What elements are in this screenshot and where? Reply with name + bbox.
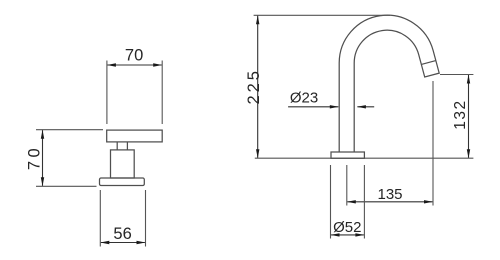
handle stem left line (116, 142, 118, 150)
arrow 225 top (256, 15, 259, 24)
mounting surface line (shared extension for 225 and 132) (255, 157, 474, 159)
dimension 70 top: extension line left (106, 61, 108, 125)
arrow Ø23 right (points left at pipe) (357, 105, 366, 108)
dimension Ø52: right extension line (363, 165, 365, 239)
dimension 225: dimension line (257, 16, 259, 158)
dimension Ø52: left extension line (330, 165, 332, 239)
dimension 225: top extension line (254, 14, 390, 16)
svg-text:70: 70 (125, 47, 143, 65)
svg-text:225: 225 (245, 68, 263, 105)
arrow 132 bottom (467, 149, 470, 158)
arrow 135 right (424, 200, 433, 203)
svg-text:135: 135 (377, 186, 402, 203)
arrow 70-top left (107, 63, 116, 66)
svg-text:Ø23: Ø23 (290, 89, 318, 106)
svg-text:70: 70 (26, 145, 44, 170)
svg-text:132: 132 (452, 99, 469, 129)
dimension 56 bottom: extension line left (99, 190, 101, 247)
spout outline (vertical pipe, gooseneck arc, angled outlet) (339, 15, 439, 152)
handle base plate (100, 178, 145, 186)
dimension 135: dimension line (347, 201, 432, 203)
arrow Ø52 right (355, 233, 364, 236)
arrow 56 right (137, 241, 146, 244)
dimension 70 left: dimension line (42, 130, 44, 186)
dimension Ø52: dimension line (331, 234, 364, 236)
dimension 135: left extension line (pipe centre) (346, 165, 348, 206)
aerator joint line (421, 61, 435, 65)
dimension Ø23: right leader line (357, 106, 374, 108)
dimension 132: top extension line (440, 74, 473, 76)
handle bar (top cross-bar) (107, 130, 163, 142)
arrow 70-left bottom (41, 177, 44, 186)
arrow Ø52 left (331, 233, 340, 236)
dimension 135: right extension line (outlet) (432, 81, 434, 206)
dimension 70 top: extension line right (161, 61, 163, 125)
arrow 56 left (100, 241, 109, 244)
arrow 132 top (467, 75, 470, 84)
arrow 70-top right (153, 63, 162, 66)
svg-text:56: 56 (113, 225, 131, 243)
arrow Ø23 left (points right at pipe) (330, 105, 339, 108)
arrow 225 bottom (256, 149, 259, 158)
dimension 56 bottom: dimension line (101, 242, 145, 244)
handle body block (111, 150, 135, 178)
arrow 135 left (347, 200, 356, 203)
dimension Ø23: left leader line (288, 106, 338, 108)
dimension 70 top: dimension line (108, 64, 162, 66)
arrow 70-left top (41, 130, 44, 139)
svg-text:Ø52: Ø52 (333, 219, 361, 236)
dimension 56 bottom: extension line right (145, 190, 147, 247)
dimension 70 left: extension line bottom (36, 185, 97, 187)
dimension 132: dimension line (468, 75, 470, 158)
dimension 70 left: extension line top (36, 129, 103, 131)
handle stem right line (126, 142, 128, 150)
spout base flange (331, 152, 364, 158)
